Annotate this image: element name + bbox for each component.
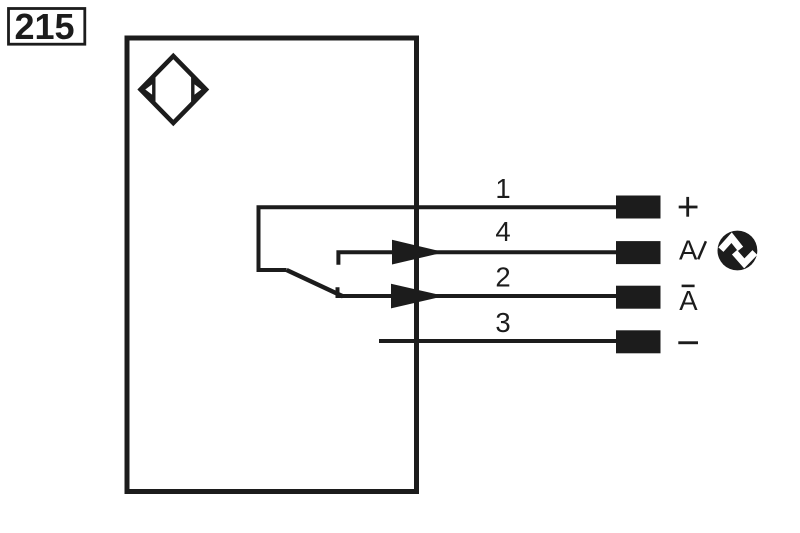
terminal pad pin 1 [616,196,661,219]
device outline (sensor housing) [127,38,417,492]
complementary-output icon (circle with chevrons) [718,231,758,271]
wire 3 (- supply) [379,339,616,343]
svg-text:1: 1 [495,173,510,204]
terminal pad pin 4 [616,241,661,264]
arrow on wire 2 [391,284,445,309]
sensor symbol (diamond) [141,56,207,123]
terminal label + [679,206,698,209]
terminal pad pin 3 [616,330,661,353]
svg-text:215: 215 [14,6,74,47]
arrow on wire 4 [392,240,445,265]
svg-text:A: A [679,234,698,265]
wire 2 (output A-bar) with contact hook [338,287,617,296]
svg-text:A: A [679,285,698,316]
terminal pad pin 2 [616,286,661,309]
svg-text:4: 4 [495,216,510,247]
terminal label minus [678,341,698,344]
wire 1 (+ supply) with branch down to switch common [259,207,617,270]
switch lever (changeover contact) [287,270,343,296]
terminal label A-bar [679,285,698,316]
figure number box 215 [9,6,85,47]
svg-text:3: 3 [495,307,510,338]
svg-text:2: 2 [495,262,510,293]
wire 4 (output A/) with contact hook [338,252,616,265]
